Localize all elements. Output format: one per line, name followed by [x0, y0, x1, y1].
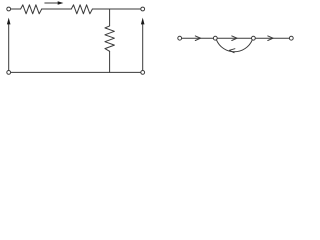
- node 1: [178, 36, 182, 40]
- node 2: [213, 36, 217, 40]
- wire between R1 and R2: [42, 8, 72, 10]
- voltage arrow V1: [7, 18, 11, 71]
- edge node3-node4: [255, 37, 289, 39]
- node 3: [252, 36, 256, 40]
- terminal port1 bottom: [7, 71, 11, 75]
- node junction top: [109, 9, 111, 26]
- wire top rail left segment: [11, 8, 21, 10]
- resistor R1: [21, 5, 42, 14]
- terminal port1 top: [7, 7, 11, 11]
- resistor R2: [71, 5, 92, 14]
- resistor R3 (shunt): [105, 26, 115, 51]
- arrowhead feedback arc: [229, 49, 235, 53]
- node 4: [289, 36, 293, 40]
- voltage arrow V2: [141, 18, 145, 71]
- edge node2-node3: [217, 37, 251, 39]
- arrowhead edge 2: [232, 36, 237, 41]
- terminal port2 top: [141, 7, 145, 11]
- wire bottom rail: [11, 71, 141, 73]
- wire top rail right segment: [92, 8, 140, 10]
- arrowhead edge 1: [195, 36, 200, 41]
- wire R3 to bottom rail: [109, 51, 111, 72]
- terminal port2 bottom: [141, 71, 145, 75]
- current arrow I1: [45, 1, 64, 4]
- edge node1-node2: [182, 37, 214, 39]
- feedback arc node3-node2: [216, 40, 252, 52]
- arrowhead edge 3: [268, 36, 273, 41]
